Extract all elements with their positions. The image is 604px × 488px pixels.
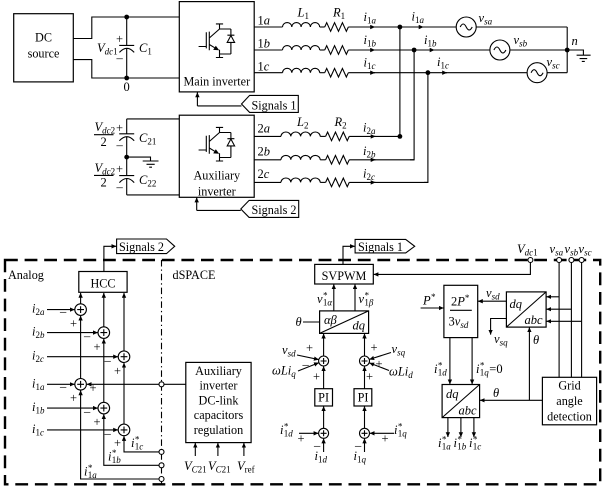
- wire i1b input: [47, 407, 98, 409]
- wire VC22 input: [217, 443, 219, 456]
- wire i1q* into Siq: [370, 432, 394, 434]
- wire vsb vertical: [570, 262, 572, 377]
- bus n vertical wire: [566, 27, 568, 73]
- Auxiliary inverter U2 box: [179, 115, 254, 197]
- svg-text:angle: angle: [556, 394, 582, 408]
- svg-text:Signals 1: Signals 1: [358, 240, 403, 254]
- svg-text:dq: dq: [446, 387, 459, 401]
- svg-text:2a: 2a: [258, 122, 271, 136]
- svg-text:+: +: [376, 357, 383, 371]
- 2P*/3vsd box: [444, 285, 478, 337]
- wire i1a input: [47, 383, 75, 385]
- svg-text:1a: 1a: [258, 14, 271, 28]
- inductor L2 phase b: [281, 155, 320, 159]
- svg-text:+: +: [116, 32, 123, 46]
- svg-text:–: –: [83, 405, 91, 419]
- junction node C dot: [426, 70, 431, 75]
- inductor L2 phase a: [281, 132, 320, 136]
- DC source box: [14, 14, 74, 82]
- open circle node i1c*: [159, 449, 164, 454]
- wire Vref input: [243, 443, 245, 456]
- inductor L1 phase b: [283, 46, 320, 50]
- wire i1c input: [47, 429, 118, 431]
- wire: [320, 26, 325, 28]
- node n dot: [565, 48, 570, 53]
- summer S1c: [118, 424, 130, 436]
- svg-text:Signals 1: Signals 1: [251, 99, 296, 113]
- svg-text:Analog: Analog: [8, 268, 44, 282]
- svg-text:–: –: [104, 427, 112, 441]
- svg-text:dq: dq: [510, 297, 523, 311]
- wire phase 2c: [254, 181, 281, 183]
- open circle node i1b*: [159, 463, 164, 468]
- wire S1a to S2a: [80, 316, 82, 379]
- svg-text:2c: 2c: [258, 167, 270, 181]
- summer S1a: [75, 379, 87, 391]
- wire phase 1b: [254, 49, 282, 51]
- summer S1b: [98, 402, 110, 414]
- svg-text:+: +: [94, 415, 101, 429]
- wire HCC to Signals 2 callout: [104, 246, 116, 271]
- capacitor C21: [119, 119, 134, 157]
- AC source vsc: [527, 63, 547, 83]
- PI box d: [315, 389, 333, 406]
- svg-text:–: –: [59, 305, 67, 319]
- fraction bar Vdc2/2 lower: [94, 174, 114, 176]
- svg-text:Auxiliary: Auxiliary: [195, 364, 243, 378]
- wire phase 1c: [254, 72, 282, 74]
- wire S1b to S2b: [103, 339, 105, 403]
- fraction bar Vdc2/2 upper: [94, 134, 114, 136]
- svg-text:+: +: [371, 341, 378, 355]
- wire wLiq diagonal: [298, 363, 319, 371]
- summer Siq: [360, 428, 370, 438]
- svg-text:regulation: regulation: [194, 423, 243, 437]
- resistor R2 phase c: [326, 178, 350, 187]
- wire Svd to ab/dq: [323, 334, 325, 356]
- open circle vsc tap: [579, 258, 584, 263]
- Main inverter U1 box: [179, 2, 254, 92]
- wire with arrow to node B: [348, 49, 375, 51]
- Grid angle detection box: [542, 377, 596, 425]
- wire i1d feedback: [323, 439, 325, 452]
- wire v1alpha*: [333, 284, 335, 311]
- wire vsc vertical: [581, 262, 583, 377]
- svg-text:DC: DC: [35, 31, 52, 45]
- wire i1d* into Sid: [299, 432, 318, 434]
- inductor L1 phase c: [283, 68, 320, 72]
- wire S2c to HCC: [123, 293, 125, 351]
- summer S2b: [98, 327, 110, 339]
- wire i1q*=0 input: [471, 338, 473, 385]
- wire: [320, 181, 325, 183]
- wire P* input: [421, 307, 444, 309]
- svg-text:abc: abc: [525, 313, 544, 327]
- svg-text:inverter: inverter: [198, 184, 236, 198]
- summer S2c: [118, 351, 130, 363]
- wire Svq to ab/dq: [364, 334, 366, 356]
- wire vsa into grid dq/abc: [546, 296, 559, 298]
- wire theta from grid angle detection: [480, 399, 543, 401]
- Signals 1 bottom callout: [355, 239, 415, 253]
- ground at n: [567, 50, 590, 61]
- Signals 2 wire from Auxiliary inverter: [197, 198, 241, 211]
- wire i1c* output: [473, 418, 475, 437]
- svg-text:dq: dq: [353, 319, 366, 333]
- wire S2a to HCC: [80, 293, 82, 304]
- svg-text:1b: 1b: [258, 37, 271, 51]
- open circle node i1a*: [159, 477, 164, 482]
- wire node A to vsa: [400, 26, 424, 28]
- wire vsa vertical: [558, 262, 560, 377]
- PI box q: [354, 389, 372, 406]
- wire vsd from grid dq/abc to 2P* box: [478, 300, 506, 302]
- summer Svd: [319, 356, 329, 366]
- summer Sid: [319, 428, 329, 438]
- resistor R2 phase b: [326, 156, 350, 165]
- wire vertical node B to 2b: [410, 50, 414, 160]
- svg-text:1c: 1c: [258, 60, 270, 74]
- svg-text:2: 2: [101, 176, 107, 190]
- wire PI q to Svq: [364, 366, 366, 388]
- svg-text:2: 2: [101, 135, 107, 149]
- svg-text:2b: 2b: [258, 145, 271, 159]
- wire i1c* reference: [124, 436, 162, 452]
- svg-text:Auxiliary: Auxiliary: [193, 169, 241, 183]
- wire vertical node A to 2a: [399, 27, 401, 137]
- wire phase 2a: [254, 135, 281, 137]
- ground at midpoint: [127, 157, 159, 167]
- svg-text:capacitors: capacitors: [194, 408, 244, 422]
- output dq/abc box: [442, 385, 480, 418]
- capacitor C1: [119, 17, 134, 78]
- svg-text:detection: detection: [547, 410, 592, 424]
- wire vsq output: [491, 319, 507, 335]
- wire i2b input: [47, 332, 98, 334]
- wire PI d to Svd: [323, 366, 325, 388]
- open circle Vdc1 tap: [528, 258, 533, 263]
- svg-text:–: –: [59, 380, 67, 394]
- svg-text:θ: θ: [533, 333, 539, 347]
- svg-text:SVPWM: SVPWM: [322, 269, 367, 283]
- svg-text:Signals 2: Signals 2: [119, 240, 164, 254]
- junction dot 2a: [398, 134, 403, 139]
- wire: [320, 135, 325, 137]
- svg-text:+: +: [114, 364, 121, 378]
- svg-text:Grid: Grid: [558, 379, 580, 393]
- wire with arrow to junction: [349, 135, 375, 137]
- wire with arrow: [349, 159, 375, 161]
- wire regulation output to S1a: [87, 383, 186, 385]
- IGBT Q aux with diode: [199, 127, 235, 161]
- wire vsa to bus n: [476, 26, 567, 28]
- svg-text:+: +: [298, 432, 305, 446]
- grid dq/abc box: [506, 292, 546, 327]
- wire aux dc top: [127, 118, 180, 120]
- svg-text:–: –: [104, 354, 112, 368]
- wire vsc into grid dq/abc: [546, 320, 581, 322]
- svg-text:+: +: [306, 341, 313, 355]
- Auxiliary inverter DC-link capacitors regulation box: [186, 362, 251, 442]
- wire DC source to bus: [73, 17, 179, 78]
- svg-text:–: –: [116, 138, 124, 152]
- svg-text:PI: PI: [318, 391, 329, 405]
- wire vsb to bus n: [510, 49, 567, 51]
- HCC box: [79, 272, 127, 293]
- Signals 1 wire from Main inverter: [197, 93, 241, 106]
- Signals 1 callout: [242, 95, 299, 112]
- svg-text:–: –: [302, 358, 310, 372]
- svg-text:+: +: [116, 162, 123, 176]
- dashed enclosure: [5, 260, 600, 484]
- svg-text:HCC: HCC: [90, 277, 115, 291]
- svg-text:–: –: [116, 180, 124, 194]
- wire Sid to PI d: [323, 406, 325, 428]
- svg-text:abc: abc: [459, 404, 478, 418]
- wire: [320, 49, 325, 51]
- wire i2a input: [47, 309, 75, 311]
- AC source vsb: [490, 40, 510, 60]
- open circle node regulation: [159, 382, 164, 387]
- svg-text:+: +: [116, 121, 123, 135]
- inductor L1 phase a: [283, 23, 320, 27]
- wire i1b* output: [460, 418, 462, 437]
- resistor R1 phase c: [325, 68, 349, 77]
- svg-text:θ: θ: [493, 386, 499, 400]
- wire with arrow: [349, 181, 375, 183]
- wire i1q feedback: [364, 439, 366, 452]
- svg-text:+: +: [313, 370, 320, 384]
- wire S1c to S2c: [123, 363, 125, 424]
- svg-text:i*1q=0: i*1q=0: [476, 361, 503, 378]
- dash-dot divider Analog/dSPACE: [161, 260, 163, 484]
- svg-text:+: +: [366, 370, 373, 384]
- wire node C to vsc: [428, 72, 447, 74]
- svg-text:–: –: [116, 51, 124, 65]
- inductor L2 phase c: [281, 178, 320, 182]
- wire with arrow to node C: [348, 72, 375, 74]
- svg-text:Signals 2: Signals 2: [251, 203, 296, 217]
- svg-text:Main inverter: Main inverter: [183, 75, 250, 89]
- wire i2c input: [47, 356, 118, 358]
- wire vsc to bus n: [547, 72, 567, 74]
- wire VC21 input: [194, 443, 196, 456]
- svg-text:source: source: [28, 47, 60, 61]
- svg-text:θ: θ: [296, 315, 302, 329]
- wire aux dc bottom: [127, 194, 180, 196]
- resistor R2 phase a: [326, 132, 350, 141]
- wire vsb into grid dq/abc: [546, 308, 571, 310]
- wire phase 2b: [254, 159, 281, 161]
- svg-text:+: +: [70, 391, 77, 405]
- wire Siq to PI q: [364, 406, 366, 428]
- svg-text:αβ: αβ: [324, 313, 338, 327]
- resistor R1 phase a: [325, 23, 349, 32]
- midpoint node dot: [124, 155, 129, 160]
- wire i1b* reference: [104, 414, 162, 465]
- wire i1a* output: [447, 418, 449, 437]
- wire SVPWM to Signals 1 callout: [343, 246, 355, 264]
- junction node B dot: [412, 48, 417, 53]
- svg-text:DC-link: DC-link: [199, 393, 240, 407]
- wire Vdc1 to SVPWM: [374, 262, 531, 274]
- wire vertical node C to 2c: [424, 73, 428, 183]
- open circle vsa tap: [557, 258, 562, 263]
- wire theta into ab/dq: [303, 321, 320, 323]
- wire v1beta*: [354, 284, 356, 311]
- Signals 2 callout: [241, 200, 299, 217]
- wire phase 1a: [254, 26, 282, 28]
- node top dot: [124, 15, 129, 20]
- IGBT Q main with diode: [199, 24, 235, 58]
- SVPWM box: [315, 264, 374, 284]
- capacitor C22: [119, 157, 134, 195]
- svg-text:+: +: [94, 340, 101, 354]
- node bottom dot (0): [124, 76, 129, 81]
- wire with arrow to node A: [348, 26, 375, 28]
- svg-text:PI: PI: [358, 391, 369, 405]
- svg-text:+: +: [70, 317, 77, 331]
- junction node A dot: [398, 25, 403, 30]
- AC source vsa: [456, 17, 476, 37]
- summer Svq: [360, 356, 370, 366]
- wire vsq diagonal: [369, 353, 391, 360]
- alpha-beta/dq box: [320, 311, 369, 334]
- wire: [320, 72, 325, 74]
- svg-text:n: n: [572, 34, 578, 48]
- wire theta branch up to grid dq/abc: [528, 327, 530, 400]
- wire vsd diagonal: [297, 355, 319, 360]
- svg-text:+: +: [90, 381, 97, 395]
- svg-text:0: 0: [124, 80, 130, 94]
- svg-text:dSPACE: dSPACE: [173, 268, 216, 282]
- wire i1d* output of 2P* box: [449, 338, 451, 385]
- summer S2a: [75, 304, 87, 316]
- svg-text:–: –: [83, 329, 91, 343]
- svg-text:+: +: [382, 432, 389, 446]
- Signals 2 bottom callout: [117, 239, 175, 254]
- wire: [320, 159, 325, 161]
- open circle vsb tap: [569, 258, 574, 263]
- wire i1a* reference: [81, 391, 162, 480]
- svg-text:inverter: inverter: [200, 379, 238, 393]
- wire node B to vsb: [414, 49, 434, 51]
- resistor R1 phase b: [325, 46, 349, 55]
- wire wLid diagonal: [369, 363, 389, 371]
- wire S2b to HCC: [103, 293, 105, 327]
